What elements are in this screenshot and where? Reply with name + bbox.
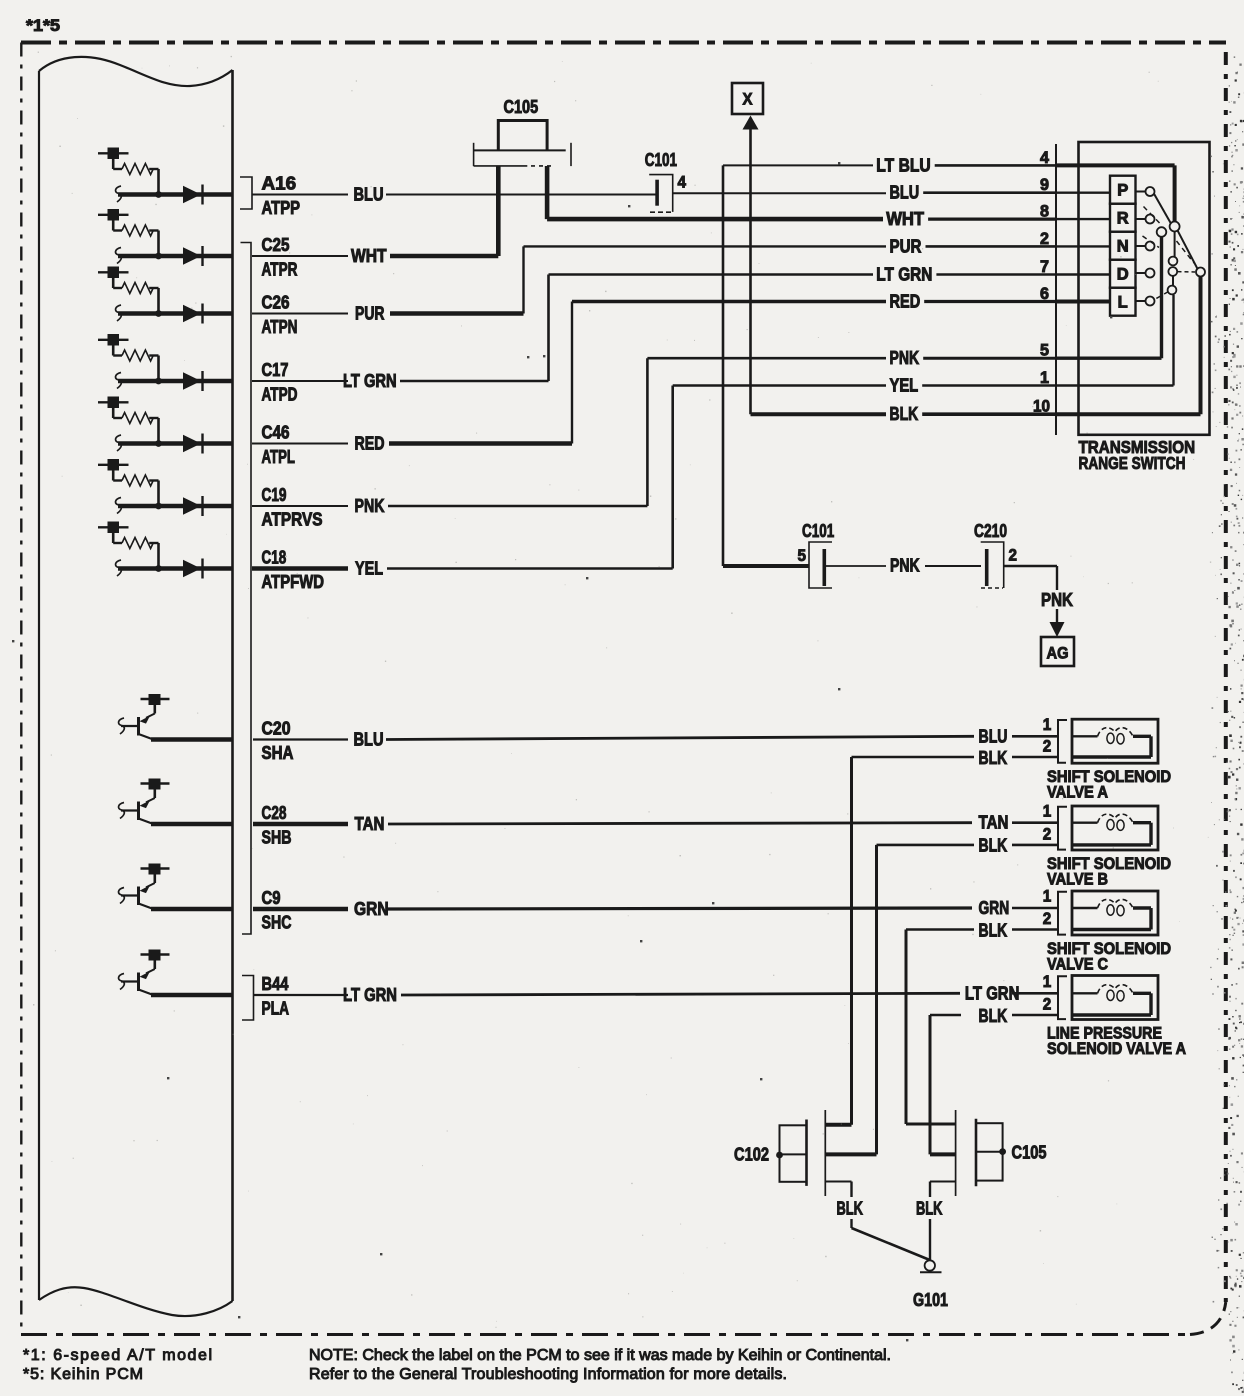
svg-text:BLK: BLK xyxy=(979,1006,1008,1026)
svg-text:BLU: BLU xyxy=(890,183,920,203)
svg-text:AG: AG xyxy=(1047,645,1069,663)
svg-text:6: 6 xyxy=(1040,285,1049,303)
svg-text:7: 7 xyxy=(1040,258,1049,276)
svg-text:1: 1 xyxy=(1043,802,1052,820)
svg-text:C210: C210 xyxy=(974,521,1007,541)
svg-text:ATPN: ATPN xyxy=(262,317,298,337)
svg-text:LT GRN: LT GRN xyxy=(965,983,1020,1003)
svg-text:C101: C101 xyxy=(645,150,677,170)
svg-text:C26: C26 xyxy=(262,293,290,313)
svg-text:P: P xyxy=(1117,182,1128,200)
svg-text:PUR: PUR xyxy=(355,304,385,324)
svg-text:PLA: PLA xyxy=(262,999,290,1019)
svg-text:R: R xyxy=(1117,210,1129,228)
svg-text:ATPFWD: ATPFWD xyxy=(262,572,325,592)
svg-text:Refer to the General Troublesh: Refer to the General Troubleshooting Inf… xyxy=(309,1366,787,1383)
svg-text:NOTE: Check the label on the P: NOTE: Check the label on the PCM to see … xyxy=(309,1347,891,1364)
svg-text:YEL: YEL xyxy=(355,559,383,579)
svg-text:C105: C105 xyxy=(504,97,539,117)
svg-text:PNK: PNK xyxy=(1041,590,1073,610)
svg-text:SHC: SHC xyxy=(262,913,292,933)
svg-text:*1: 6-speed A/T model: *1: 6-speed A/T model xyxy=(23,1347,212,1364)
svg-text:5: 5 xyxy=(1040,342,1049,360)
svg-text:C20: C20 xyxy=(262,719,291,739)
svg-text:1: 1 xyxy=(1043,888,1052,906)
svg-text:BLK: BLK xyxy=(916,1199,943,1219)
svg-text:LT BLU: LT BLU xyxy=(876,155,930,175)
svg-text:RED: RED xyxy=(355,434,385,454)
svg-text:C102: C102 xyxy=(734,1145,769,1165)
svg-text:SHB: SHB xyxy=(262,828,292,848)
svg-text:SOLENOID VALVE A: SOLENOID VALVE A xyxy=(1047,1040,1186,1058)
svg-text:L: L xyxy=(1118,294,1128,312)
svg-text:GRN: GRN xyxy=(979,898,1010,918)
svg-text:BLK: BLK xyxy=(837,1199,864,1219)
svg-text:ATPRVS: ATPRVS xyxy=(262,510,323,530)
svg-text:VALVE C: VALVE C xyxy=(1047,956,1108,974)
svg-text:1: 1 xyxy=(1043,716,1052,734)
svg-text:2: 2 xyxy=(1040,230,1049,248)
svg-text:C46: C46 xyxy=(262,423,290,443)
svg-text:2: 2 xyxy=(1009,547,1018,565)
svg-text:VALVE A: VALVE A xyxy=(1047,784,1108,802)
svg-text:BLK: BLK xyxy=(979,920,1008,940)
svg-text:2: 2 xyxy=(1043,996,1052,1014)
svg-text:BLK: BLK xyxy=(890,404,919,424)
svg-text:ATPR: ATPR xyxy=(262,260,298,280)
svg-text:LT GRN: LT GRN xyxy=(876,265,932,285)
svg-text:1: 1 xyxy=(1043,973,1052,991)
svg-text:ATPL: ATPL xyxy=(262,447,296,467)
svg-text:RED: RED xyxy=(890,292,921,312)
svg-text:PUR: PUR xyxy=(890,236,922,256)
svg-text:10: 10 xyxy=(1033,398,1050,416)
svg-text:C25: C25 xyxy=(262,235,290,255)
svg-text:C105: C105 xyxy=(1012,1143,1047,1163)
svg-text:BLK: BLK xyxy=(979,748,1008,768)
svg-text:9: 9 xyxy=(1040,176,1049,194)
svg-text:2: 2 xyxy=(1043,826,1052,844)
svg-text:*1*5: *1*5 xyxy=(26,17,60,35)
svg-text:WHT: WHT xyxy=(351,246,387,266)
svg-text:1: 1 xyxy=(1040,369,1049,387)
svg-text:ATPD: ATPD xyxy=(262,385,298,405)
svg-text:LT GRN: LT GRN xyxy=(343,985,397,1005)
svg-text:C9: C9 xyxy=(262,888,281,908)
svg-text:G101: G101 xyxy=(913,1290,948,1310)
svg-text:BLU: BLU xyxy=(354,185,384,205)
svg-text:BLU: BLU xyxy=(979,726,1008,746)
svg-text:BLK: BLK xyxy=(979,836,1008,856)
svg-text:C101: C101 xyxy=(802,521,834,541)
svg-text:5: 5 xyxy=(798,547,807,565)
svg-text:TAN: TAN xyxy=(355,814,385,834)
svg-text:ATPP: ATPP xyxy=(262,198,301,218)
svg-text:C28: C28 xyxy=(262,803,287,823)
svg-text:4: 4 xyxy=(1040,149,1050,167)
svg-text:C17: C17 xyxy=(262,360,289,380)
svg-text:WHT: WHT xyxy=(886,209,924,229)
svg-text:SHA: SHA xyxy=(262,743,294,763)
svg-text:YEL: YEL xyxy=(890,376,919,396)
svg-text:BLU: BLU xyxy=(354,730,384,750)
svg-text:4: 4 xyxy=(678,174,687,192)
svg-text:C18: C18 xyxy=(262,548,287,568)
svg-text:LT GRN: LT GRN xyxy=(343,371,397,391)
svg-text:N: N xyxy=(1117,238,1129,256)
svg-text:*5: Keihin PCM: *5: Keihin PCM xyxy=(23,1366,143,1383)
svg-text:RANGE SWITCH: RANGE SWITCH xyxy=(1079,453,1186,473)
svg-text:PNK: PNK xyxy=(890,348,920,368)
svg-text:B44: B44 xyxy=(262,974,289,994)
svg-text:D: D xyxy=(1117,266,1129,284)
svg-text:PNK: PNK xyxy=(355,496,385,516)
svg-text:PNK: PNK xyxy=(890,556,920,576)
svg-text:2: 2 xyxy=(1043,738,1052,756)
svg-text:GRN: GRN xyxy=(354,899,389,919)
svg-text:VALVE B: VALVE B xyxy=(1047,871,1108,889)
svg-text:X: X xyxy=(743,91,753,109)
svg-text:C19: C19 xyxy=(262,485,287,505)
svg-text:2: 2 xyxy=(1043,910,1052,928)
svg-text:8: 8 xyxy=(1040,203,1049,221)
svg-text:A16: A16 xyxy=(262,174,297,194)
svg-text:TAN: TAN xyxy=(979,813,1009,833)
